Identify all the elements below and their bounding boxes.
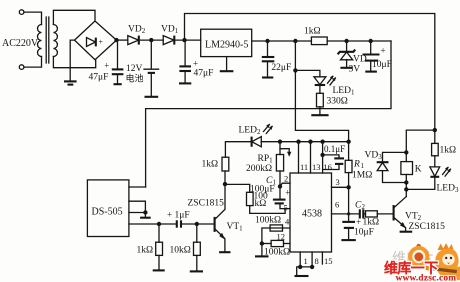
IC 4538 [290,173,332,252]
svg-text:330Ω: 330Ω [327,97,348,107]
svg-text:1: 1 [304,256,308,266]
wire pin2 [280,183,290,186]
transformer core [45,17,47,63]
watermark mascot badge [408,244,429,268]
node zener [344,39,348,43]
svg-text:+: + [381,46,386,56]
resistor 100k pin4 [270,227,290,229]
LED1 arrows [328,76,336,85]
resistor 100k vertical [225,184,250,192]
svg-text:VD3: VD3 [365,151,383,162]
node RP1 [278,140,282,144]
svg-text:12: 12 [277,232,286,242]
watermark stick [428,267,457,274]
svg-text:11: 11 [300,162,308,172]
wire DC bus [117,39,128,41]
resistor 100k pin12 [284,243,291,245]
regulator U LM2940-5 [201,29,252,56]
svg-text:22μF: 22μF [271,63,291,73]
svg-text:2: 2 [362,203,366,211]
svg-text:2: 2 [284,174,288,184]
svg-text:8: 8 [315,256,319,266]
node 10k tap [195,222,199,226]
svg-text:47μF: 47μF [89,72,109,82]
svg-text:+: + [104,60,109,70]
svg-text:ZSC1815: ZSC1815 [188,199,225,209]
LED2 [252,137,261,147]
node C1 pin2 [278,184,282,188]
pin 16 stub [322,142,324,173]
zener VD 3V [346,41,348,51]
LED1 [295,70,320,76]
node K top [404,150,408,154]
svg-text:47μF: 47μF [194,69,214,79]
svg-text:VT1: VT1 [227,222,244,233]
resistor 1k lower-left [158,224,160,242]
wire secondary top to bridge top [53,10,95,24]
diode VD3 [383,152,407,162]
svg-text:200kΩ: 200kΩ [246,164,272,174]
capacitor 0.1uF [320,153,324,157]
node relay rail [433,128,437,132]
transformer T primary coil [38,25,42,57]
resistor R1 1M [348,142,350,161]
resistor 330 [317,93,324,107]
wire 100k pair to ground [262,228,270,256]
capacitor 10uF top [370,41,372,53]
svg-text:+: + [193,59,198,69]
pin 3 wire [332,186,349,188]
svg-text:VD1: VD1 [161,25,179,36]
node collector joint [404,187,408,191]
wire 5V drop x295 [295,41,348,142]
wire primary top [24,12,42,24]
capacitor 1uF coupling [176,220,178,227]
svg-text:VT2: VT2 [405,212,422,223]
resistor 1k C2 [363,213,365,215]
svg-text:LM2940-5: LM2940-5 [205,40,248,51]
svg-text:1kΩ: 1kΩ [137,246,154,256]
svg-text:1MΩ: 1MΩ [352,171,372,181]
node 22uF [265,39,269,43]
svg-text:10μF: 10μF [372,60,392,70]
resistor 1k top [311,37,327,45]
ground transformer [64,80,77,82]
svg-text:+: + [167,210,172,220]
node LED1 tap [293,68,297,72]
svg-text:K: K [415,165,422,175]
svg-text:LED2: LED2 [239,126,261,137]
potentiometer RP1 [279,142,281,155]
svg-text:0.1μF: 0.1μF [324,144,345,154]
svg-text:6: 6 [335,200,339,210]
svg-text:kΩ: kΩ [255,199,267,209]
svg-text:16: 16 [323,162,332,172]
relay K [405,152,407,161]
svg-text:+: + [99,38,104,47]
battery 12V [150,40,152,69]
wire 5V output [252,40,312,42]
pin 6 wire [332,213,360,215]
node bridge output [114,38,118,42]
svg-text:1kΩ: 1kΩ [304,27,321,37]
wire 5V elbow to rail [146,41,391,187]
capacitor C1 100uF [279,186,281,198]
svg-text:电池: 电池 [126,73,144,84]
stub bar below node [144,213,146,218]
LED2 arrows [264,125,273,134]
svg-text:RP1: RP1 [258,154,274,165]
node VT1 collector [223,182,227,186]
svg-text:AC220V: AC220V [2,38,39,49]
terminal top-left [19,10,24,15]
svg-text:12V: 12V [126,64,143,74]
svg-text:10μF: 10μF [354,228,374,238]
block DS-505 [87,180,128,237]
wire DS pin4 signal [129,223,176,225]
terminal bottom-left [19,65,24,70]
node DS pins joint [143,210,147,214]
bridge rectifier diamond [75,21,117,60]
wire DS pin3 [129,212,146,214]
node 5V branch down [293,39,297,43]
capacitor 22uF [267,41,269,56]
node 10uF [369,39,373,43]
wire primary bottom [24,57,42,68]
transformer T secondary coil [53,25,57,57]
svg-text:R: R [353,160,360,170]
capacitor 47uF second [184,40,186,65]
svg-text:100kΩ: 100kΩ [255,216,281,226]
diode VD1 [163,36,174,45]
wire to top rail [185,14,435,131]
svg-text:4538: 4538 [302,209,322,220]
node after VD1 [182,38,186,42]
LED3 [430,167,440,176]
transistor VT1 [214,217,216,232]
transistor VT2 [393,205,395,221]
svg-text:3V: 3V [349,65,361,75]
LED3 arrows [443,168,451,177]
pin 11 stub [298,142,300,173]
svg-text:LED3: LED3 [437,184,459,195]
svg-text:3: 3 [336,177,340,187]
wire DS pin2 [129,201,146,212]
node battery [149,38,153,42]
resistor 1k right [434,130,436,143]
node 1k tap [157,222,161,226]
capacitor 10uF timing [347,212,350,215]
wire RP1 to node C1 [279,171,281,186]
wire secondary bottom to bridge bottom [53,57,95,68]
svg-text:1kΩ: 1kΩ [363,218,380,228]
svg-text:VD2: VD2 [128,25,146,36]
node K bottom [404,180,408,184]
svg-text:1kΩ: 1kΩ [440,146,457,156]
svg-text:15: 15 [324,256,333,266]
svg-text:LED1: LED1 [333,86,355,97]
watermark mascot chick [435,243,460,281]
svg-text:ZSC1815: ZSC1815 [409,222,446,232]
wire DS pin1 to 5V rail [129,186,146,188]
IC bottom pins [299,252,301,267]
diode VD2 [128,36,139,45]
wire 5V logic bus [261,141,349,143]
svg-text:1kΩ: 1kΩ [202,160,219,170]
wire rail to K [406,130,435,152]
svg-text:1: 1 [361,162,365,170]
svg-text:DS-505: DS-505 [92,207,123,218]
resistor 1k LED2 [224,171,226,184]
pin 13 stub [310,142,312,173]
svg-text:VD: VD [353,55,367,65]
capacitor C2 [359,209,361,218]
wire bridge left vertex to ground [70,40,74,81]
capacitor 47uF first [117,40,119,68]
svg-text:www.dzsc.com: www.dzsc.com [396,274,457,282]
resistor 10k [196,224,198,242]
svg-text:10kΩ: 10kΩ [170,246,191,256]
bridge inner diode [87,38,96,47]
svg-text:1μF: 1μF [175,211,190,221]
svg-text:13: 13 [312,162,321,172]
